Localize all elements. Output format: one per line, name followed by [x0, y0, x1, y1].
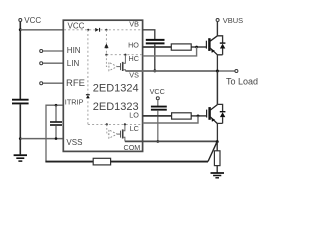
svg-text:LIN: LIN [67, 59, 80, 68]
svg-text:HC: HC [129, 54, 139, 63]
wire collector bracket low [217, 104, 222, 111]
wire dashed buffer input high [106, 55, 109, 67]
capacitor C2 (ITRIP filter) [50, 105, 62, 138]
wire C1 to ground [19, 104, 21, 154]
node HC dashed right [124, 54, 126, 56]
node VCC junction [19, 28, 22, 31]
transistor Q1 high-side IGBT [206, 36, 217, 55]
transistor Q2 low-side IGBT [207, 105, 218, 124]
node C4 on COM [156, 140, 159, 143]
svg-text:COM: COM [124, 143, 141, 152]
node phase [216, 70, 219, 73]
terminal RFE [40, 82, 64, 85]
svg-text:To Load: To Load [226, 76, 258, 86]
resistor R1 high-side gate [171, 44, 191, 50]
op-amp U1a clamp buffer high [109, 62, 117, 70]
wire ITRIP sense branch [46, 105, 64, 161]
diode DA on vertical A [86, 94, 90, 98]
svg-text:VCC: VCC [24, 16, 41, 25]
node ITRIP cap junction [55, 104, 58, 107]
svg-text:LC: LC [130, 124, 139, 133]
node on VB rail right [105, 29, 107, 31]
node on VB rail left [87, 29, 89, 31]
wire VS net [125, 70, 217, 72]
wire diagonal to shunt node [208, 142, 217, 161]
wire HO to gate resistor [143, 46, 172, 48]
svg-text:2ED1324: 2ED1324 [93, 82, 139, 94]
diode D1 freewheel high [220, 43, 226, 55]
node LC dashed right [124, 123, 126, 125]
wire internal dashed HC line [106, 54, 141, 56]
wire LO to gate resistor [143, 115, 172, 117]
wire VB jog to bootstrap cap [143, 30, 155, 39]
ground GND2 [211, 173, 225, 178]
node C2 on VSS line [55, 137, 58, 140]
wire emitter bracket low [217, 123, 222, 141]
wire VSS to IC [20, 138, 63, 140]
op-amp U1b clamp buffer low [109, 130, 117, 138]
wire dashed buffer input low [107, 124, 109, 134]
wire internal dashed vertical B [105, 30, 107, 55]
resistor R4 shunt [214, 142, 220, 173]
node shunt top [216, 140, 219, 143]
ground GND1 [14, 155, 27, 161]
transistor M2 clamp low [117, 124, 125, 141]
wire emitter bracket [217, 55, 222, 71]
svg-text:ITRIP: ITRIP [65, 98, 84, 107]
svg-text:HO: HO [128, 41, 139, 50]
svg-text:RFE: RFE [66, 78, 85, 89]
wire HC clamp connection [143, 47, 197, 56]
wire LC clamp connection [143, 116, 198, 123]
svg-text:VCC: VCC [150, 87, 165, 96]
wire COM net [125, 140, 217, 142]
wire R2 to gate [191, 115, 206, 117]
svg-text:VS: VS [129, 71, 139, 80]
terminal VCC (low-side supply) [150, 87, 165, 100]
wire VCC vertical rail [19, 22, 21, 99]
diode DB on vertical B [105, 44, 109, 48]
wire VS to load terminal [217, 70, 234, 72]
wire internal dashed VB rail [64, 29, 142, 31]
terminal VCC (top-left) [19, 16, 42, 25]
svg-text:VB: VB [129, 19, 139, 28]
wire C3 to VS [154, 44, 156, 71]
wire internal dashed vertical A [87, 30, 89, 125]
wire R1 to gate [191, 46, 206, 48]
wire internal dashed LC line [88, 123, 142, 125]
wire collector bracket [217, 36, 222, 43]
capacitor C4 VCC decoupling [151, 100, 167, 141]
diode D2 freewheel low [220, 112, 226, 124]
terminal VBUS [216, 16, 243, 25]
resistor R2 low-side gate [172, 113, 192, 119]
capacitor C3 bootstrap [146, 40, 165, 44]
svg-text:VCC: VCC [68, 22, 85, 31]
svg-text:VSS: VSS [66, 138, 82, 147]
svg-text:VBUS: VBUS [223, 16, 243, 25]
terminal LIN [40, 62, 64, 65]
node LC dashed left [106, 123, 108, 125]
terminal To Load [226, 70, 258, 87]
op-amp U1 gate driver IC box [63, 20, 142, 151]
svg-text:LO: LO [129, 110, 139, 119]
wire bottom sense right [111, 161, 208, 163]
capacitor C1 (VCC bulk) [12, 100, 29, 104]
wire VBUS down to collector [216, 22, 218, 37]
wire VCC to IC pin [20, 29, 63, 31]
wire phase down to Q2 [216, 71, 218, 104]
svg-text:HIN: HIN [67, 46, 81, 55]
terminal HIN [40, 50, 64, 53]
diode D3 bootstrap [95, 28, 100, 32]
wire bottom sense left [45, 161, 93, 163]
node C3 on VS [153, 69, 156, 72]
node VSS junction on rail [19, 137, 22, 140]
resistor R3 (ITRIP series) [93, 158, 110, 165]
node gate low [197, 115, 200, 118]
node gate high [195, 46, 198, 49]
transistor M1 clamp high [117, 55, 125, 71]
node HC dashed left [105, 54, 107, 56]
